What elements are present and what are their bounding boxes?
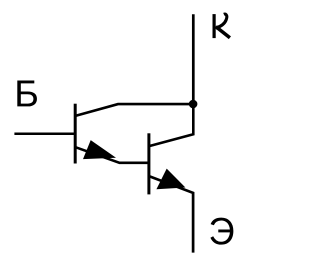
- wire: Q1 collector diagonal and horizontal to node: [76, 104, 194, 116]
- wire: collector terminal lead (К), top vertical: [192, 14, 195, 104]
- wire: base terminal lead (Б) to Q1 base bar: [14, 132, 76, 135]
- transistor Q1: base bar: [74, 104, 77, 164]
- label Б (base terminal): [17, 81, 37, 107]
- transistor Q2: base bar: [147, 133, 150, 194]
- node: collector junction dot: [189, 100, 198, 109]
- transistor Q2: emitter arrow: [156, 169, 185, 190]
- wire: Q2 collector diagonal up to node: [150, 104, 194, 146]
- wire: Q1 emitter diagonal to Q2 base: [76, 147, 150, 163]
- transistor Q1: emitter arrow: [83, 140, 116, 159]
- wire: Q2 emitter diagonal and emitter terminal lead (Э): [150, 176, 194, 252]
- label К (collector terminal): [214, 14, 230, 38]
- label Э (emitter terminal): [210, 218, 233, 245]
